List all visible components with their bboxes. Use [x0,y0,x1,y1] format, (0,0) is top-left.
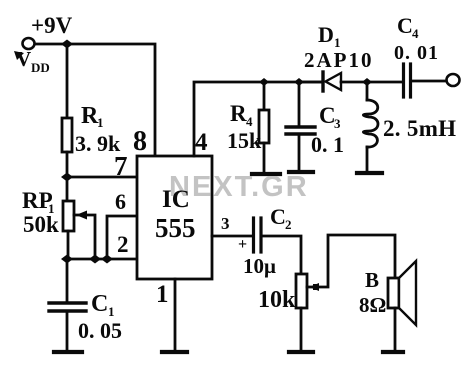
svg-text:0. 05: 0. 05 [78,318,122,343]
svg-text:V: V [16,47,31,71]
svg-text:3: 3 [334,116,341,131]
svg-text:R: R [230,101,247,126]
svg-text:D: D [318,22,334,47]
svg-text:1: 1 [97,115,104,130]
svg-text:8: 8 [133,126,147,157]
svg-text:DD: DD [31,60,50,75]
svg-text:C: C [270,204,286,229]
svg-text:0. 01: 0. 01 [394,42,439,64]
svg-text:4: 4 [246,114,253,129]
svg-text:NEXT.GR: NEXT.GR [169,171,309,203]
svg-text:C: C [397,13,413,38]
svg-text:50k: 50k [23,212,59,237]
svg-text:4: 4 [412,26,419,41]
svg-text:+9V: +9V [31,13,73,38]
svg-text:555: 555 [155,213,196,243]
svg-text:10μ: 10μ [243,254,276,278]
svg-text:15k: 15k [227,128,262,153]
svg-text:6: 6 [115,189,126,214]
svg-text:2: 2 [285,217,292,232]
svg-text:0. 1: 0. 1 [311,132,344,157]
svg-text:C: C [91,291,108,317]
svg-text:3: 3 [221,214,230,233]
svg-text:2AP10: 2AP10 [304,48,374,72]
svg-text:B: B [365,268,379,292]
svg-text:2. 5mH: 2. 5mH [383,116,456,141]
svg-text:4: 4 [195,129,208,156]
svg-text:10k: 10k [258,287,296,313]
svg-text:2: 2 [117,232,129,257]
svg-text:8Ω: 8Ω [359,293,386,317]
svg-text:+: + [238,236,247,253]
svg-text:7: 7 [114,151,128,181]
svg-text:1: 1 [156,281,169,308]
svg-text:1: 1 [108,304,115,319]
